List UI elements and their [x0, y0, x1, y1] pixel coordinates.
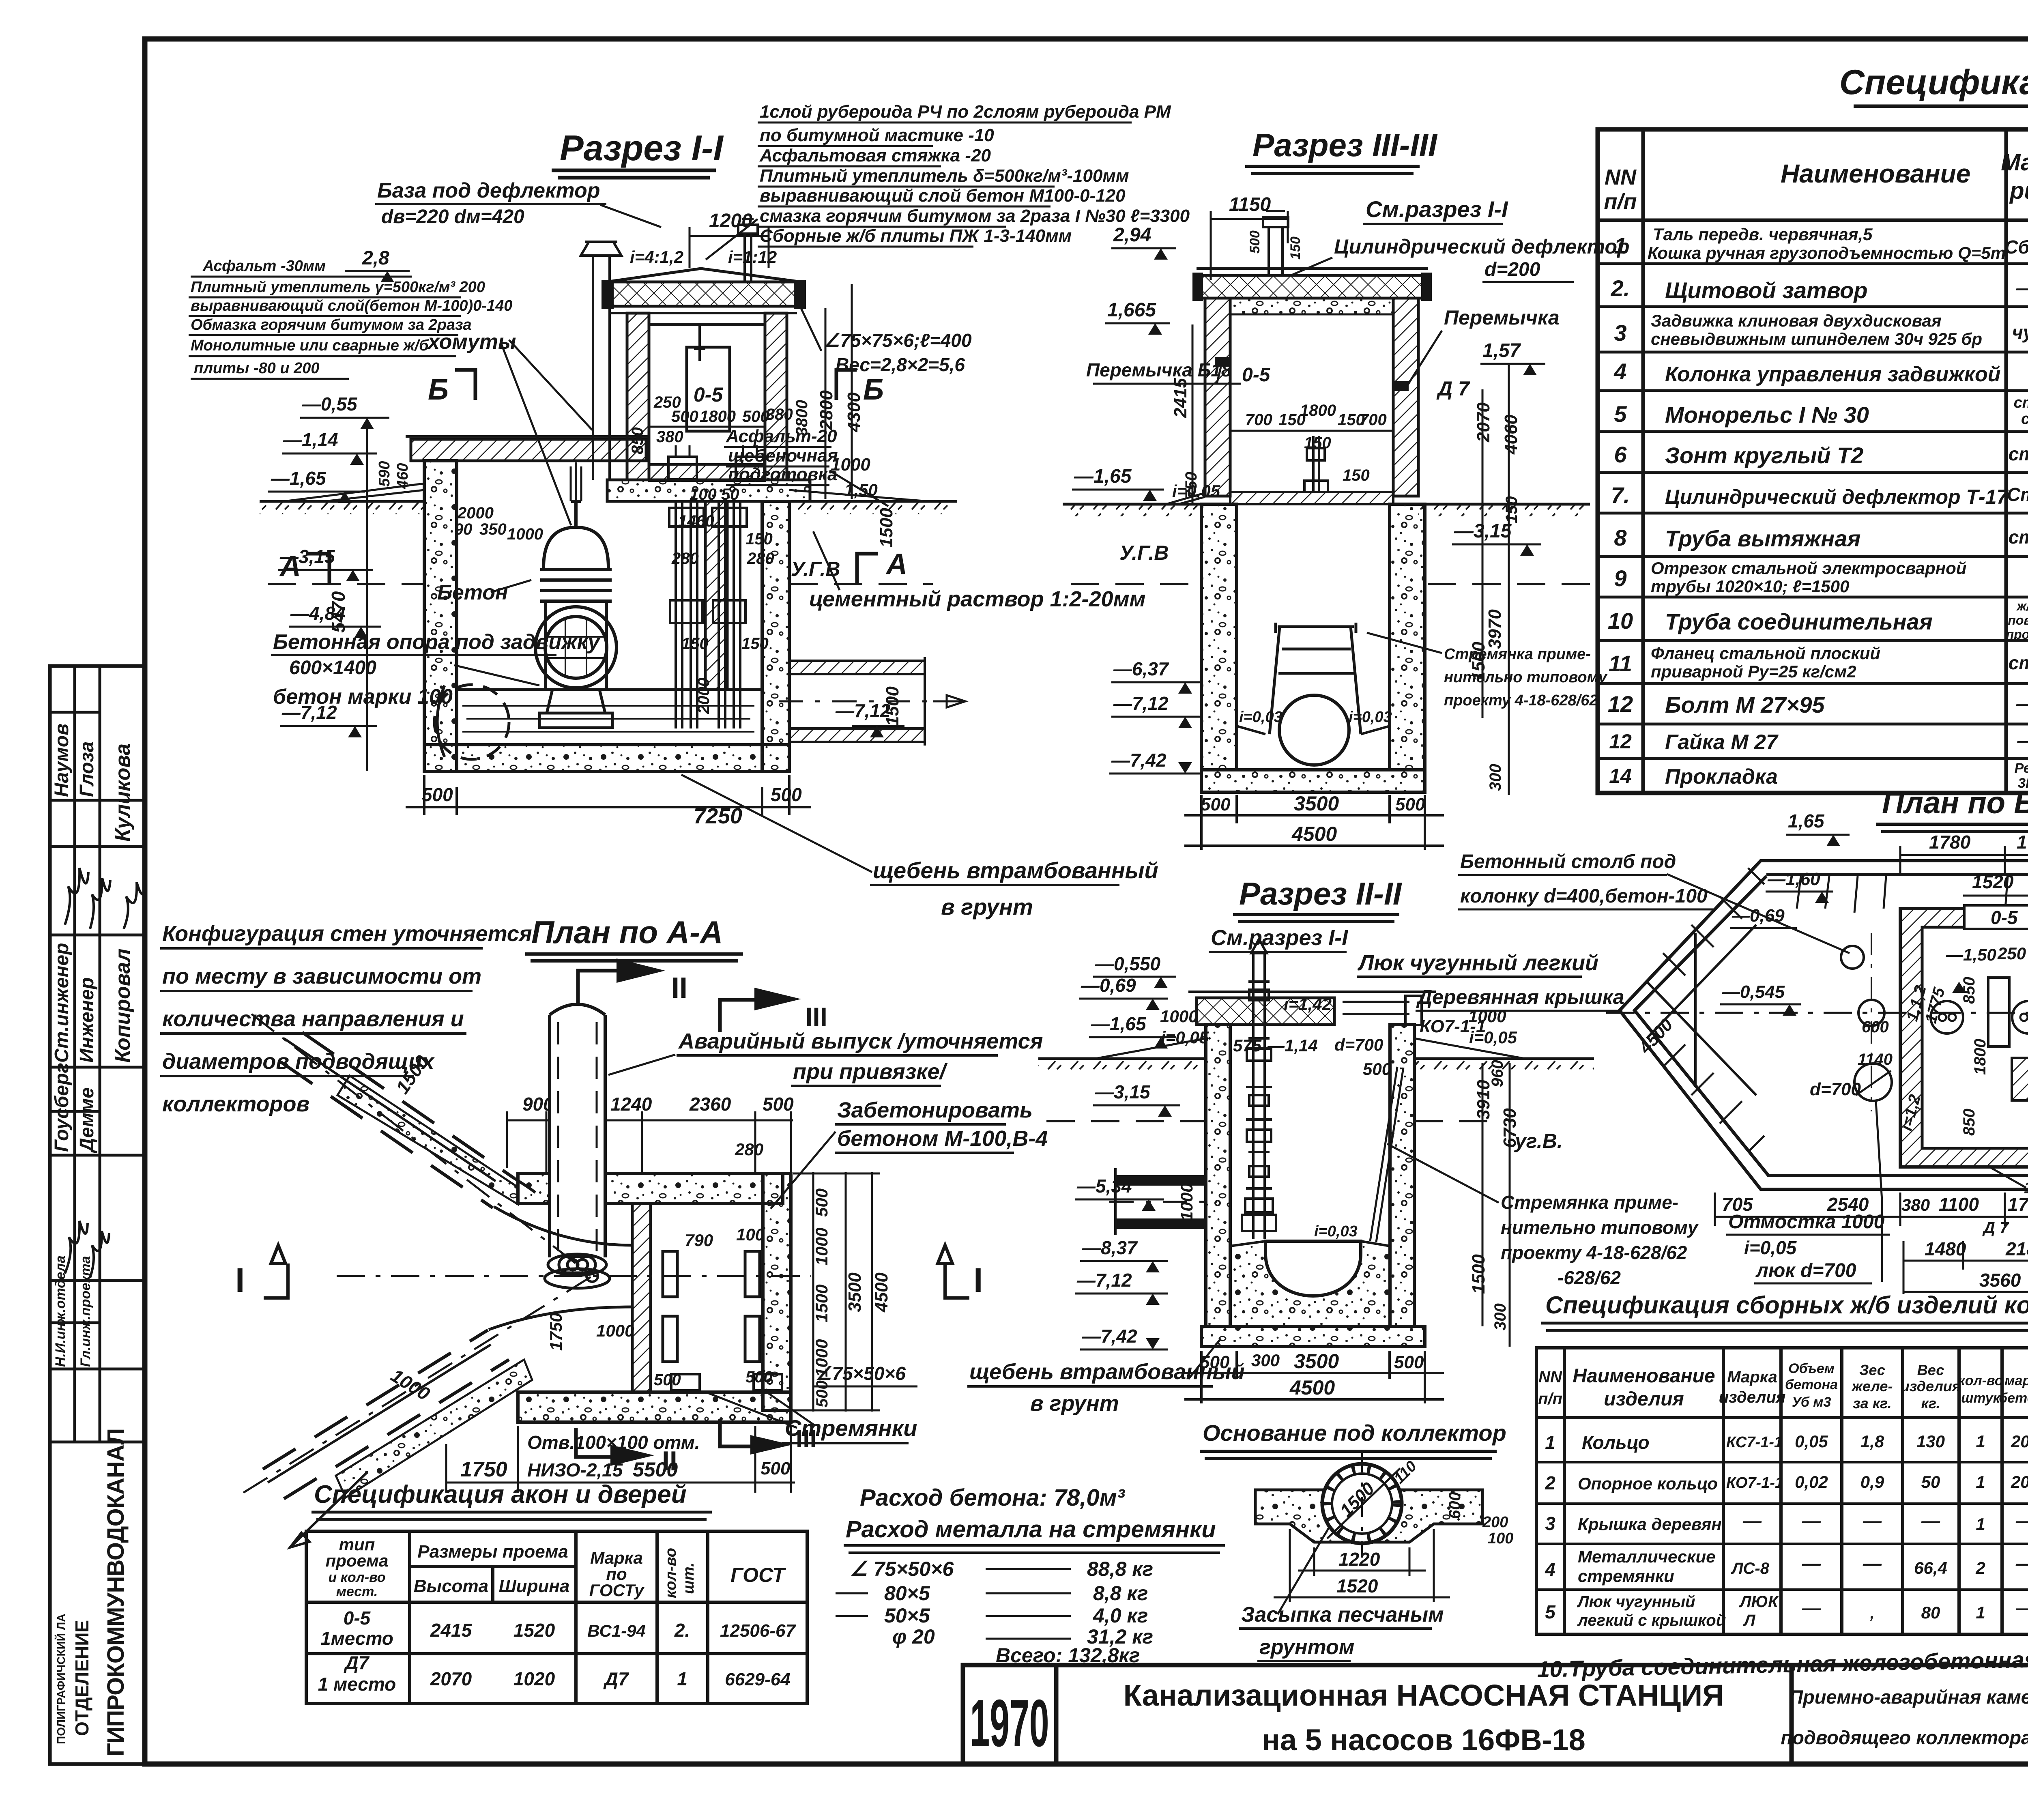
- bottom dims: [1184, 1351, 1444, 1403]
- svg-text:Глоза: Глоза: [76, 741, 98, 797]
- svg-text:500: 500: [1394, 1352, 1424, 1372]
- svg-text:—: —: [1921, 1510, 1940, 1531]
- svg-text:500: 500: [771, 784, 802, 805]
- svg-text:4500: 4500: [1289, 1376, 1335, 1399]
- bottom dim rows: [1715, 1193, 2028, 1300]
- svg-text:по месту в зависимости от: по месту в зависимости от: [162, 964, 481, 988]
- svg-text:ЛС-8: ЛС-8: [1731, 1560, 1770, 1577]
- svg-text:База под дефлектор: База под дефлектор: [377, 179, 600, 202]
- inner equipment dims: [1245, 402, 1387, 484]
- svg-text:кол-во: кол-во: [662, 1548, 679, 1598]
- svg-text:Кольцо: Кольцо: [1582, 1432, 1650, 1453]
- svg-text:11: 11: [1609, 651, 1632, 676]
- svg-text:NN: NN: [1605, 165, 1637, 189]
- svg-text:Наименование: Наименование: [1781, 159, 1970, 188]
- svg-text:Засыпка песчаным: Засыпка песчаным: [1241, 1603, 1444, 1627]
- svg-text:dв=220 dм=420: dв=220 dм=420: [381, 206, 524, 228]
- svg-text:Аварийный выпуск /уточняется: Аварийный выпуск /уточняется: [678, 1029, 1043, 1053]
- pavilion walls hatched: [1205, 298, 1230, 496]
- svg-text:КО7-1-1: КО7-1-1: [1726, 1474, 1783, 1491]
- svg-text:Л: Л: [1743, 1612, 1756, 1629]
- svg-text:шт.: шт.: [680, 1562, 697, 1594]
- svg-text:сталь: сталь: [2009, 526, 2028, 548]
- svg-text:4: 4: [1613, 359, 1626, 384]
- svg-text:150: 150: [1288, 236, 1303, 260]
- svg-text:300: 300: [1487, 764, 1504, 791]
- svg-text:80: 80: [1921, 1603, 1940, 1622]
- svg-text:Гоусберг: Гоусберг: [51, 1063, 73, 1152]
- svg-text:12: 12: [1608, 691, 1633, 717]
- svg-text:Плитный утеплитель γ=500кг/м³: Плитный утеплитель γ=500кг/м³ 200: [191, 279, 485, 296]
- svg-text:коллекторов: коллекторов: [162, 1092, 309, 1116]
- svg-text:—5,34: —5,34: [1076, 1175, 1132, 1197]
- svg-text:Марка: Марка: [1727, 1368, 1777, 1386]
- ground floor slab at grade: [1230, 492, 1393, 504]
- svg-text:1780: 1780: [1929, 832, 1971, 853]
- svg-text:приварной Ру=25 кг/см2: приварной Ру=25 кг/см2: [1651, 662, 1856, 681]
- bottom section marks: [576, 1428, 610, 1457]
- svg-text:бетоном М-100,В-4: бетоном М-100,В-4: [837, 1126, 1048, 1151]
- section marks top: [578, 971, 617, 1005]
- svg-text:i=0,05: i=0,05: [1469, 1028, 1517, 1047]
- svg-text:100: 100: [1488, 1530, 1513, 1547]
- ladder: [1370, 1067, 1403, 1242]
- svg-text:См.разрез I-I: См.разрез I-I: [1366, 196, 1508, 222]
- ground: [1038, 1057, 1206, 1060]
- svg-text:4500: 4500: [872, 1272, 892, 1313]
- svg-text:1750: 1750: [546, 1313, 565, 1351]
- svg-text:в грунт: в грунт: [941, 894, 1033, 920]
- left bottom elevations: [1111, 658, 1169, 771]
- Y channel dashed pipes: [263, 1032, 514, 1499]
- svg-text:Д7: Д7: [603, 1668, 629, 1689]
- svg-text:План по А-А: План по А-А: [531, 914, 723, 950]
- svg-text:2000: 2000: [457, 504, 494, 522]
- svg-text:d=700: d=700: [1334, 1035, 1383, 1054]
- svg-text:ПОЛИГРАФИЧСКИЙ ЛА: ПОЛИГРАФИЧСКИЙ ЛА: [54, 1614, 67, 1745]
- table header text: [1604, 147, 2028, 219]
- svg-text:300: 300: [1251, 1351, 1280, 1370]
- svg-text:i=0,03: i=0,03: [1239, 709, 1283, 726]
- svg-text:Инженер: Инженер: [76, 977, 98, 1063]
- elevations left: [1076, 953, 1161, 1347]
- svg-text:NN: NN: [1538, 1368, 1562, 1386]
- svg-text:1100: 1100: [1939, 1194, 1979, 1215]
- svg-text:d=200: d=200: [1484, 259, 1540, 280]
- svg-text:У.Г.В: У.Г.В: [1119, 541, 1169, 564]
- svg-text:по битумной мастике -10: по битумной мастике -10: [760, 125, 994, 145]
- svg-text:7.: 7.: [1611, 482, 1630, 508]
- pipe circle: [1279, 695, 1349, 765]
- svg-text:Болт М 27×95: Болт М 27×95: [1665, 692, 1825, 718]
- svg-text:плиты -80 и 200: плиты -80 и 200: [194, 360, 320, 377]
- svg-text:460: 460: [394, 463, 411, 489]
- svg-text:смазка горячим битумом за 2раз: смазка горячим битумом за 2раза I №30 ℓ=…: [760, 206, 1190, 226]
- svg-text:280: 280: [747, 550, 774, 567]
- gate valve: [535, 501, 617, 690]
- underground walls: [424, 461, 457, 771]
- svg-text:6629-64: 6629-64: [725, 1670, 790, 1689]
- svg-text:Разрез III-III: Разрез III-III: [1252, 127, 1438, 163]
- svg-text:и кол-во: и кол-во: [328, 1570, 385, 1585]
- svg-text:3: 3: [1614, 320, 1626, 346]
- svg-text:бетон марки 100: бетон марки 100: [273, 685, 453, 709]
- svg-text:Бетонная опора под задвижку: Бетонная опора под задвижку: [273, 630, 601, 654]
- svg-text:Высота: Высота: [414, 1576, 488, 1596]
- svg-text:Деревянная крышка: Деревянная крышка: [1416, 986, 1624, 1008]
- svg-text:200: 200: [2011, 1432, 2028, 1451]
- svg-text:изделия: изделия: [1604, 1388, 1684, 1410]
- svg-text:—: —: [1742, 1510, 1762, 1531]
- svg-text:3500: 3500: [845, 1272, 865, 1312]
- svg-text:Спецификация сборных ж/б издел: Спецификация сборных ж/б изделий колодец: [1545, 1291, 2028, 1319]
- svg-text:600×1400: 600×1400: [289, 657, 376, 679]
- svg-text:Труба вытяжная: Труба вытяжная: [1665, 526, 1860, 551]
- svg-text:2070: 2070: [430, 1668, 472, 1689]
- stamp names rotated: [51, 724, 135, 1367]
- svg-text:1800: 1800: [1300, 402, 1336, 419]
- stamp signatures squiggles: [65, 868, 146, 1278]
- pavilion floor / ground slabs: [649, 464, 765, 481]
- svg-text:150: 150: [1503, 496, 1521, 523]
- svg-text:3560: 3560: [1979, 1270, 2021, 1291]
- svg-text:План по Б-Б: План по Б-Б: [1882, 786, 2028, 820]
- svg-text:500: 500: [422, 784, 453, 805]
- svg-text:Демме: Демме: [76, 1087, 98, 1154]
- svg-text:4: 4: [1545, 1559, 1555, 1580]
- B marks: [428, 374, 884, 406]
- svg-text:НИЗО-2,15: НИЗО-2,15: [527, 1459, 623, 1480]
- svg-text:при привязке/: при привязке/: [793, 1059, 948, 1084]
- underground walls speckled: [1201, 504, 1237, 770]
- Razrez I-I: valve, pumps, pipes, ground, dims: [260, 284, 1158, 920]
- svg-text:380: 380: [656, 428, 683, 446]
- svg-text:500: 500: [1201, 795, 1231, 814]
- svg-text:8: 8: [1614, 525, 1627, 550]
- svg-text:50: 50: [721, 486, 739, 503]
- svg-text:щебень втрамбованный: щебень втрамбованный: [969, 1360, 1245, 1384]
- svg-text:Забетонировать: Забетонировать: [837, 1098, 1033, 1122]
- svg-text:за кг.: за кг.: [1853, 1395, 1891, 1412]
- svg-text:1,65: 1,65: [1788, 810, 1825, 832]
- ground lines + hatch: [260, 500, 957, 503]
- svg-text:0,02: 0,02: [1795, 1472, 1828, 1491]
- svg-text:500: 500: [760, 1459, 791, 1478]
- svg-text:Цилиндрический дефлектор Т-17: Цилиндрический дефлектор Т-17: [1665, 486, 2009, 508]
- svg-text:500: 500: [1247, 230, 1263, 254]
- svg-text:Перемычка Б18: Перемычка Б18: [1086, 359, 1232, 380]
- svg-text:ГОСТу: ГОСТу: [589, 1581, 645, 1600]
- svg-text:130: 130: [1916, 1432, 1945, 1451]
- svg-text:—7,42: —7,42: [1111, 750, 1167, 771]
- svg-text:1000: 1000: [812, 1228, 831, 1266]
- svg-text:600: 600: [1446, 1492, 1464, 1519]
- svg-text:i=0,05: i=0,05: [1744, 1237, 1797, 1258]
- svg-text:—: —: [1802, 1597, 1821, 1618]
- svg-text:4060: 4060: [1501, 415, 1521, 455]
- svg-text:∠75×75×6;ℓ=400: ∠75×75×6;ℓ=400: [823, 330, 972, 351]
- svg-text:1500: 1500: [877, 508, 896, 548]
- svg-text:марка: марка: [2004, 1373, 2028, 1388]
- svg-text:Отмостка 1000: Отмостка 1000: [1728, 1211, 1885, 1233]
- svg-text:850: 850: [1960, 1109, 1978, 1136]
- svg-text:Монолитные или сварные ж/б: Монолитные или сварные ж/б: [191, 337, 429, 354]
- svg-text:1000: 1000: [831, 455, 870, 475]
- svg-text:трубы 1020×10; ℓ=1500: трубы 1020×10; ℓ=1500: [1651, 577, 1849, 596]
- svg-text:цементный раствор 1:2-20мм: цементный раствор 1:2-20мм: [809, 587, 1146, 611]
- svg-text:ГИПРОКОММУНВОДОКАНАЛ: ГИПРОКОММУНВОДОКАНАЛ: [103, 1429, 129, 1756]
- svg-text:2180: 2180: [2005, 1238, 2028, 1259]
- svg-text:1500: 1500: [1469, 1254, 1489, 1294]
- svg-text:—7,12: —7,12: [1113, 693, 1169, 714]
- svg-text:1: 1: [1545, 1432, 1555, 1453]
- svg-text:Опорное кольцо: Опорное кольцо: [1578, 1474, 1718, 1493]
- svg-text:легкий с крышкой: легкий с крышкой: [1577, 1612, 1726, 1629]
- svg-text:1460: 1460: [678, 512, 714, 530]
- svg-text:1750: 1750: [460, 1458, 507, 1481]
- svg-text:I: I: [235, 1261, 245, 1299]
- svg-text:Сталь: Сталь: [2007, 484, 2028, 505]
- svg-text:100: 100: [690, 486, 717, 503]
- svg-text:i=0,03: i=0,03: [1314, 1223, 1358, 1240]
- svg-text:ГОСТ: ГОСТ: [730, 1564, 786, 1586]
- svg-text:1000: 1000: [1160, 1007, 1198, 1026]
- misc dims around chamber: [454, 486, 774, 653]
- svg-text:Перемычка: Перемычка: [1444, 306, 1560, 329]
- svg-text:150: 150: [681, 635, 709, 653]
- svg-text:на 5 насосов 16ФВ-18: на 5 насосов 16ФВ-18: [1262, 1723, 1585, 1757]
- svg-text:280: 280: [671, 550, 699, 567]
- svg-text:—7,12: —7,12: [835, 700, 891, 721]
- svg-text:п/п: п/п: [1604, 189, 1637, 214]
- lintel marks: [1215, 357, 1230, 367]
- svg-text:150: 150: [745, 530, 773, 548]
- dashed pipe circle lower-left: [434, 685, 509, 759]
- svg-text:1220: 1220: [1338, 1549, 1380, 1570]
- svg-text:кол-во: кол-во: [1958, 1373, 2003, 1388]
- svg-text:3500: 3500: [1294, 1350, 1339, 1373]
- svg-text:500: 500: [654, 1371, 681, 1389]
- svg-text:Таль передв. червячная,5: Таль передв. червячная,5: [1653, 225, 1873, 244]
- svg-text:66,4: 66,4: [1914, 1558, 1947, 1577]
- svg-text:Конфигурация стен уточняется: Конфигурация стен уточняется: [162, 922, 532, 946]
- svg-text:выравнивающий слой бетон М100-: выравнивающий слой бетон М100-0-120: [760, 186, 1126, 206]
- svg-text:—: —: [2015, 1510, 2028, 1531]
- svg-text:Люк чугунный: Люк чугунный: [1577, 1593, 1695, 1611]
- svg-text:Приемно-аварийная камера при г: Приемно-аварийная камера при глубине: [1789, 1686, 2028, 1708]
- svg-text:14: 14: [1609, 765, 1632, 787]
- svg-text:Основание под коллектор: Основание под коллектор: [1203, 1420, 1506, 1446]
- svg-text:Объем: Объем: [1788, 1361, 1835, 1376]
- svg-text:—8,37: —8,37: [1082, 1237, 1138, 1258]
- svg-text:Б: Б: [863, 374, 884, 406]
- svg-text:500: 500: [812, 1188, 831, 1217]
- svg-text:3: 3: [1545, 1513, 1555, 1534]
- svg-text:мест.: мест.: [336, 1584, 378, 1599]
- svg-text:500: 500: [742, 408, 769, 425]
- svg-text:ВС1-94: ВС1-94: [587, 1621, 646, 1640]
- svg-text:—1,65: —1,65: [271, 468, 327, 489]
- svg-text:—: —: [2015, 1553, 2028, 1574]
- svg-text:1000: 1000: [1468, 1007, 1506, 1026]
- svg-text:1,57: 1,57: [1482, 340, 1521, 361]
- svg-text:грунтом: грунтом: [1259, 1635, 1354, 1659]
- svg-text:Бетонный столб под: Бетонный столб под: [1460, 851, 1676, 872]
- svg-text:0-5: 0-5: [344, 1607, 371, 1629]
- svg-text:Крышка деревян: Крышка деревян: [1578, 1515, 1722, 1534]
- svg-text:500: 500: [813, 1380, 831, 1407]
- svg-text:2415: 2415: [1171, 378, 1190, 418]
- svg-text:0-5: 0-5: [694, 383, 723, 406]
- svg-text:проема: проема: [326, 1551, 389, 1570]
- svg-text:—1,14: —1,14: [1267, 1036, 1318, 1055]
- svg-text:Расход металла на стремянки: Расход металла на стремянки: [846, 1516, 1216, 1543]
- svg-text:Мате-: Мате-: [2001, 149, 2028, 176]
- svg-text:Труба соединительная: Труба соединительная: [1665, 609, 1933, 634]
- svg-text:Уб м3: Уб м3: [1792, 1395, 1831, 1410]
- svg-text:изделия: изделия: [1719, 1388, 1786, 1406]
- svg-text:Резина: Резина: [2015, 761, 2028, 776]
- svg-text:Кошка ручная грузоподъемностью: Кошка ручная грузоподъемностью Q=5т: [1648, 243, 2006, 263]
- svg-text:—6,37: —6,37: [1113, 658, 1169, 679]
- emergency pipe (vertical): [550, 1015, 605, 1274]
- svg-text:1520: 1520: [1336, 1575, 1378, 1597]
- A-A extra concrete strips along Y channel: [268, 1038, 532, 1498]
- svg-text:ст.3: ст.3: [2021, 410, 2028, 428]
- svg-text:Размеры проема: Размеры проема: [417, 1542, 568, 1562]
- svg-text:7250: 7250: [694, 804, 742, 828]
- svg-text:—1,14: —1,14: [283, 429, 338, 450]
- svg-text:500: 500: [763, 1094, 794, 1115]
- svg-text:0,9: 0,9: [1860, 1472, 1884, 1491]
- svg-text:Плитный утеплитель δ=500кг/м³-: Плитный утеплитель δ=500кг/м³-100мм: [760, 166, 1129, 186]
- interior features: [1931, 1001, 1963, 1034]
- svg-text:желе-: желе-: [1851, 1378, 1893, 1395]
- svg-text:88,8 кг: 88,8 кг: [1087, 1558, 1153, 1580]
- svg-text:50×5: 50×5: [884, 1604, 930, 1627]
- svg-text:2000: 2000: [695, 678, 713, 714]
- svg-text:—: —: [2015, 1597, 2028, 1618]
- svg-text:Сборные ж/б плиты ПЖ 1-3-140мм: Сборные ж/б плиты ПЖ 1-3-140мм: [760, 226, 1072, 246]
- svg-text:5: 5: [1545, 1601, 1556, 1622]
- centerlines: [243, 1014, 811, 1493]
- svg-text:500: 500: [745, 1368, 773, 1386]
- svg-text:9: 9: [1614, 565, 1626, 591]
- svg-text:в грунт: в грунт: [1030, 1391, 1119, 1416]
- gate slots: [663, 1251, 760, 1362]
- svg-text:12: 12: [1609, 730, 1632, 753]
- svg-text:кг.: кг.: [1921, 1395, 1940, 1412]
- svg-text:5470: 5470: [328, 591, 349, 633]
- svg-text:Щитовой затвор: Щитовой затвор: [1665, 277, 1868, 303]
- left elevation flags: [271, 393, 358, 723]
- svg-text:150: 150: [1343, 466, 1370, 484]
- svg-text:350: 350: [479, 520, 507, 538]
- sump floor + water lines: [457, 688, 762, 691]
- svg-text:2: 2: [1545, 1472, 1555, 1493]
- svg-text:1: 1: [1976, 1603, 1985, 1622]
- svg-text:Вес: Вес: [1917, 1362, 1944, 1378]
- svg-text:II: II: [671, 972, 687, 1004]
- vent on roof: [1263, 211, 1288, 275]
- svg-text:500: 500: [1363, 1059, 1391, 1079]
- svg-text:1слой рубероида РЧ по 2слоям р: 1слой рубероида РЧ по 2слоям рубероида Р…: [760, 102, 1171, 122]
- svg-text:количества направления и: количества направления и: [162, 1007, 464, 1031]
- svg-text:Отрезок стальной электросварно: Отрезок стальной электросварной: [1651, 559, 1966, 578]
- svg-text:Фланец стальной плоский: Фланец стальной плоский: [1651, 644, 1880, 663]
- outline double: [1620, 861, 2028, 1189]
- svg-text:Люк чугунный легкий: Люк чугунный легкий: [1357, 951, 1598, 975]
- walls: [1206, 1025, 1230, 1326]
- svg-text:бетона: бетона: [1785, 1377, 1838, 1392]
- svg-text:8,8 кг: 8,8 кг: [1093, 1582, 1148, 1605]
- svg-text:d=700: d=700: [1810, 1079, 1861, 1099]
- svg-text:Асфальт -30мм: Асфальт -30мм: [202, 258, 326, 275]
- concrete bands: [518, 1173, 783, 1203]
- svg-text:стремянки: стремянки: [1578, 1566, 1674, 1586]
- svg-text:проекту 4-18-628/62: проекту 4-18-628/62: [1501, 1242, 1687, 1263]
- svg-text:i=1,42: i=1,42: [1284, 995, 1332, 1014]
- svg-text:3800: 3800: [793, 400, 811, 436]
- svg-text:уг.В.: уг.В.: [1514, 1130, 1563, 1152]
- svg-text:Спецификация акон и дверей: Спецификация акон и дверей: [314, 1480, 687, 1508]
- svg-text:1500: 1500: [812, 1285, 831, 1322]
- svg-text:2415: 2415: [430, 1620, 473, 1641]
- svg-text:1240: 1240: [610, 1094, 652, 1115]
- left annotation block: [191, 258, 512, 377]
- svg-text:Разрез I-I: Разрез I-I: [560, 128, 724, 168]
- svg-text:1,50: 1,50: [844, 480, 878, 499]
- svg-text:—7,42: —7,42: [1082, 1326, 1137, 1347]
- svg-text:790: 790: [685, 1231, 713, 1250]
- svg-text:чугун: чугун: [2012, 322, 2028, 343]
- svg-text:250: 250: [1997, 944, 2026, 963]
- svg-text:50: 50: [1921, 1472, 1940, 1491]
- tick hatches along diamond edges: [1663, 868, 1764, 1152]
- bottom dims: [446, 1426, 795, 1493]
- svg-text:500: 500: [671, 408, 698, 425]
- svg-text:риал: риал: [2009, 178, 2028, 204]
- svg-text:Цилиндрический дефлектор: Цилиндрический дефлектор: [1334, 235, 1630, 258]
- svg-text:200: 200: [2011, 1472, 2028, 1491]
- svg-text:—3,15: —3,15: [279, 546, 335, 567]
- svg-text:1000: 1000: [507, 525, 543, 543]
- svg-text:1480: 1480: [1925, 1238, 1966, 1259]
- svg-text:Монорельс I № 30: Монорельс I № 30: [1665, 402, 1869, 428]
- rear mast: [738, 219, 758, 282]
- diamond interior diagonals: [1647, 925, 1756, 1095]
- svg-text:—: —: [1802, 1553, 1821, 1574]
- svg-text:сталь: сталь: [2009, 443, 2028, 464]
- svg-text:изделия: изделия: [1901, 1378, 1961, 1395]
- svg-text:600: 600: [1862, 1018, 1889, 1036]
- svg-text:,: ,: [1870, 1605, 1875, 1622]
- svg-text:—: —: [1802, 1510, 1821, 1531]
- top cover + machinery column: [1188, 991, 1436, 993]
- svg-text:Д 7: Д 7: [1436, 377, 1470, 400]
- svg-text:-628/62: -628/62: [1558, 1267, 1621, 1288]
- bottom dims: [1184, 795, 1444, 850]
- svg-text:КС7-1-1: КС7-1-1: [1726, 1434, 1783, 1451]
- svg-text:0-5: 0-5: [1242, 364, 1271, 386]
- svg-text:Наумов: Наумов: [51, 724, 73, 797]
- svg-text:Бетон: Бетон: [437, 581, 508, 604]
- svg-text:2.: 2.: [1611, 275, 1630, 301]
- svg-text:—1,65: —1,65: [1074, 466, 1132, 487]
- svg-text:Ст.инженер: Ст.инженер: [51, 943, 73, 1063]
- svg-text:1140: 1140: [1858, 1051, 1893, 1068]
- svg-text:1место: 1место: [320, 1628, 393, 1649]
